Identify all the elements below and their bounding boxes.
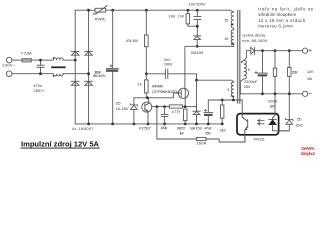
- wire source to bias diode: [185, 106, 196, 108]
- capacitor 2n2 100V feedback: [164, 69, 166, 79]
- wire node A to 2n2: [146, 73, 165, 75]
- svg-text:Th-NTC: Th-NTC: [94, 16, 106, 21]
- diode D3 bridge lower-left: [71, 80, 79, 82]
- top rail main segment: [106, 9, 230, 11]
- svg-text:22R: 22R: [292, 69, 298, 74]
- resistor 220R 2W: [274, 51, 276, 68]
- svg-text:100p: 100p: [160, 125, 167, 130]
- node AC-L to bridge: [74, 59, 77, 62]
- output terminal plus: [303, 48, 308, 53]
- node snubber RC join: [196, 25, 199, 28]
- output terminal minus: [303, 91, 308, 96]
- svg-text:15: 15: [224, 18, 228, 23]
- wire drain node to MOSFET and primary: [185, 46, 234, 88]
- node rail BA159: [195, 123, 198, 126]
- wire choke to bridge right: [63, 73, 89, 75]
- svg-text:2k2: 2k2: [220, 128, 226, 133]
- base wire row: [152, 106, 170, 108]
- capacitor 2200uF 25V: [262, 51, 264, 73]
- zener ZD 16-18V gate protect: [133, 98, 135, 105]
- -12V output rail: [240, 93, 302, 95]
- transistor KC507: [142, 102, 152, 112]
- node source: [184, 105, 187, 108]
- svg-text:1k: 1k: [137, 81, 141, 86]
- bottom ground rail: [75, 123, 222, 125]
- wire N to choke: [12, 73, 53, 75]
- svg-text:16-18V: 16-18V: [116, 106, 129, 111]
- svg-text:středním sloupkem: středním sloupkem: [258, 12, 296, 17]
- diode D1 bridge upper-left: [71, 50, 79, 52]
- node 100p top: [163, 105, 166, 108]
- svg-text:18k 1W: 18k 1W: [168, 14, 184, 19]
- svg-text:5A: 5A: [307, 76, 312, 81]
- svg-text:trafo na ferit. jádře se: trafo na ferit. jádře se: [258, 7, 314, 12]
- choke core bar: [51, 66, 65, 68]
- node cap 2200 top: [261, 49, 264, 52]
- svg-text:rychlá dioda: rychlá dioda: [242, 33, 266, 38]
- svg-text:4N35: 4N35: [254, 137, 265, 142]
- svg-text:min. 8A 100V: min. 8A 100V: [242, 38, 268, 43]
- polarity dot winding 5: [241, 61, 243, 63]
- MOSFET IRF840: [178, 88, 188, 98]
- optocoupler 4N35 box: [237, 114, 279, 135]
- resistor 1k gate series: [145, 74, 147, 80]
- node 18k top: [187, 9, 190, 12]
- capacitor 47uF 25V bias: [207, 100, 209, 112]
- node 47k top: [145, 9, 148, 12]
- feedback winding 3: [197, 80, 234, 100]
- primary winding 15+15: [230, 10, 234, 46]
- wire aux bias node: [208, 99, 242, 101]
- bridge left branch wire: [74, 10, 76, 124]
- node AC-N to bridge: [87, 72, 90, 75]
- svg-text:47k 1W: 47k 1W: [126, 38, 138, 43]
- secondary rectifier diode: [244, 51, 251, 61]
- aux diode BA159 bias: [196, 80, 198, 111]
- snubber diode BA159: [194, 35, 201, 37]
- node rail bulk cap: [111, 123, 114, 126]
- node LED wire rail cross: [274, 92, 277, 95]
- svg-text:3: 3: [227, 87, 229, 92]
- node rail zener: [133, 123, 136, 126]
- capacitor 100p: [164, 107, 166, 115]
- svg-text:12 x 15 mm a vzduch.: 12 x 15 mm a vzduch.: [258, 18, 307, 23]
- wire 2n2 to feedback node: [168, 74, 197, 80]
- common-mode choke top winding: [53, 58, 63, 60]
- gate wire: [134, 93, 179, 98]
- svg-text:350-400V: 350-400V: [93, 74, 107, 78]
- sense resistor 0R22 1W: [184, 109, 188, 121]
- diode D2 bridge upper-right: [85, 50, 93, 52]
- bridge right branch wire: [88, 10, 90, 124]
- +12V output rail: [255, 50, 303, 52]
- capacitor 100uF 350-400V bulk: [112, 10, 114, 68]
- node 2k2 top: [221, 99, 224, 102]
- svg-text:T 2,5A: T 2,5A: [21, 51, 32, 56]
- svg-text:100V: 100V: [164, 62, 173, 67]
- svg-text:250V~: 250V~: [33, 88, 46, 93]
- node gate 1k collector: [146, 96, 149, 99]
- svg-text:11V2: 11V2: [295, 122, 303, 127]
- polarity dot primary 1: [231, 24, 233, 26]
- svg-text:KC507: KC507: [139, 125, 151, 130]
- svg-text:BA159: BA159: [191, 50, 203, 55]
- svg-text:2W: 2W: [270, 103, 275, 108]
- svg-text:25V: 25V: [244, 84, 251, 89]
- zener ZD 11V2: [286, 118, 294, 121]
- thermistor Th-NTC: [95, 8, 106, 12]
- node 10n top: [196, 9, 199, 12]
- wire fuse to choke: [41, 59, 54, 61]
- X capacitor 470n 250V: [37, 64, 44, 66]
- node rail 2k2: [221, 123, 224, 126]
- svg-text:10n 500V: 10n 500V: [189, 2, 206, 7]
- svg-text:1W: 1W: [179, 131, 184, 136]
- node winding3 bottom: [232, 99, 235, 102]
- mains terminal L: [6, 57, 12, 63]
- node rail 47uF: [207, 123, 210, 126]
- svg-text:15: 15: [224, 36, 228, 41]
- top rail left segment: [75, 9, 95, 11]
- node 22R zener rail: [288, 92, 291, 95]
- node A gate drive: [145, 72, 148, 75]
- resistor 47k 1W startup: [145, 10, 147, 35]
- node bulk cap top: [111, 9, 114, 12]
- svg-text:Impulzní zdroj 12V 5A: Impulzní zdroj 12V 5A: [21, 139, 100, 148]
- svg-text:47R: 47R: [172, 109, 181, 114]
- fuse F T 2,5A: [22, 59, 41, 61]
- svg-text:5: 5: [248, 67, 250, 72]
- transformer core: [237, 11, 239, 104]
- svg-text:(STP5NK50ZD): (STP5NK50ZD): [152, 89, 178, 94]
- opto LED: [269, 119, 276, 121]
- resistor 150R: [197, 137, 206, 140]
- opto light arrows: [258, 119, 264, 125]
- diode D4 bridge lower-right: [85, 80, 93, 82]
- svg-text:BA159: BA159: [190, 126, 202, 131]
- common-mode choke bottom winding: [53, 74, 63, 76]
- feedback path to opto: [157, 107, 197, 139]
- svg-text:25V: 25V: [205, 131, 211, 136]
- junction node cap bottom: [39, 72, 42, 75]
- opto phototransistor: [247, 120, 249, 128]
- svg-text:230V~: 230V~: [2, 63, 16, 68]
- polarity dot winding 3: [231, 95, 233, 97]
- resistor 22R: [288, 51, 290, 68]
- node rail 100p: [163, 123, 166, 126]
- node bridge right top: [87, 9, 90, 12]
- node rail emitter: [147, 123, 150, 126]
- snubber resistor 18k 1W: [187, 10, 189, 14]
- svg-text:12V: 12V: [307, 69, 314, 74]
- resistor 2k2 bias bleed: [221, 100, 223, 105]
- svg-text:150R: 150R: [196, 141, 206, 146]
- node rail bridge right: [87, 123, 90, 126]
- node drain: [196, 45, 199, 48]
- mains terminal N: [6, 71, 12, 77]
- junction node fuse-cap top: [39, 59, 42, 62]
- wire choke to bridge left: [63, 59, 75, 61]
- node cap 2200 bottom: [261, 92, 264, 95]
- node base feedback: [156, 105, 159, 108]
- wire L to fuse: [12, 59, 22, 61]
- svg-text:danyk.cz: danyk.cz: [301, 151, 316, 157]
- secondary winding 5: [240, 60, 246, 93]
- node feedback winding top: [195, 79, 198, 82]
- svg-text:DANYK: DANYK: [301, 146, 315, 152]
- node 220R top: [274, 49, 277, 52]
- snubber capacitor 10n 500V: [196, 10, 198, 16]
- svg-text:mezerou 0,1mm: mezerou 0,1mm: [258, 23, 293, 28]
- node 22R top: [288, 49, 291, 52]
- polarity dot primary 2: [231, 43, 233, 45]
- resistor 47R: [169, 105, 182, 108]
- node rail sense: [184, 123, 187, 126]
- svg-text:ZD: ZD: [297, 117, 302, 122]
- svg-text:4x 1N4007: 4x 1N4007: [72, 126, 94, 131]
